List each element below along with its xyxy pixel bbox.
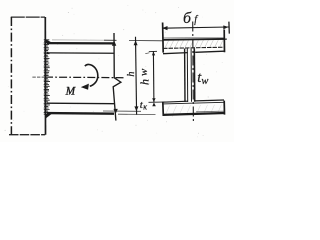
flange2 weld lines <box>163 100 224 102</box>
svg-text:б: б <box>183 10 192 27</box>
moment arc <box>85 64 98 86</box>
bf right extension line <box>228 22 230 34</box>
flange2 lower thin line <box>196 110 224 113</box>
svg-text:f: f <box>194 15 198 26</box>
extension line (lower) <box>103 110 141 112</box>
svg-text:tк: tк <box>140 99 147 111</box>
extension line over beam (h top) <box>52 39 104 41</box>
arrow bottom <box>134 106 138 111</box>
its top tick <box>149 50 157 52</box>
bf dimension line <box>163 27 229 28</box>
flange1 hatch <box>165 39 223 48</box>
section web <box>184 49 186 103</box>
second dimension line <box>136 37 137 115</box>
bf arrow left <box>162 26 167 30</box>
h arrow bottom <box>114 109 118 114</box>
section flange1 top edge <box>163 36 224 39</box>
wall bottom edge <box>9 134 45 136</box>
weld fillet top <box>46 39 53 43</box>
section flange1 inner face <box>163 47 224 48</box>
beam top flange top edge <box>47 42 114 45</box>
wall axis (dash-dot left edge of wall) <box>10 17 12 135</box>
flange1 weld lines <box>163 51 224 54</box>
section flange1 right edge + bf extension <box>223 30 225 53</box>
beam centerline <box>32 76 45 78</box>
arrow top <box>134 40 138 45</box>
section axis (vertical dash-dot) <box>192 22 195 124</box>
beam bottom flange top edge <box>47 102 114 105</box>
bottom arrow <box>152 98 155 102</box>
beam top flange bottom edge <box>47 52 114 54</box>
section flange2 left edge <box>162 102 165 116</box>
h arrow top <box>112 40 116 45</box>
section flange2 right edge <box>223 101 225 115</box>
moment arrowhead <box>81 84 89 90</box>
bottom extension <box>149 101 169 103</box>
svg-text:hw: hw <box>138 68 152 85</box>
section flange2 inner face <box>163 102 224 104</box>
section web-height dimension line <box>152 51 155 102</box>
scan speckle noise <box>5 5 223 137</box>
top arrow <box>152 52 155 56</box>
wall right edge (column face) <box>44 17 46 135</box>
svg-text:tw: tw <box>197 70 208 87</box>
beam bottom flange bottom edge <box>47 112 114 115</box>
wall top edge <box>11 16 45 18</box>
section flange2 bottom edge <box>163 113 225 115</box>
end-plate hatch band <box>44 40 50 114</box>
small arrow blob below <box>152 102 156 106</box>
weld fillet bottom <box>46 114 52 119</box>
beam break edge + h dimension line <box>113 33 121 121</box>
flange2 hatch <box>166 105 222 114</box>
svg-text:M: M <box>65 85 76 97</box>
bf arrow right <box>223 25 228 29</box>
flange top edge overshoot <box>224 38 226 40</box>
section flange1 left edge + bf extension <box>162 23 165 53</box>
